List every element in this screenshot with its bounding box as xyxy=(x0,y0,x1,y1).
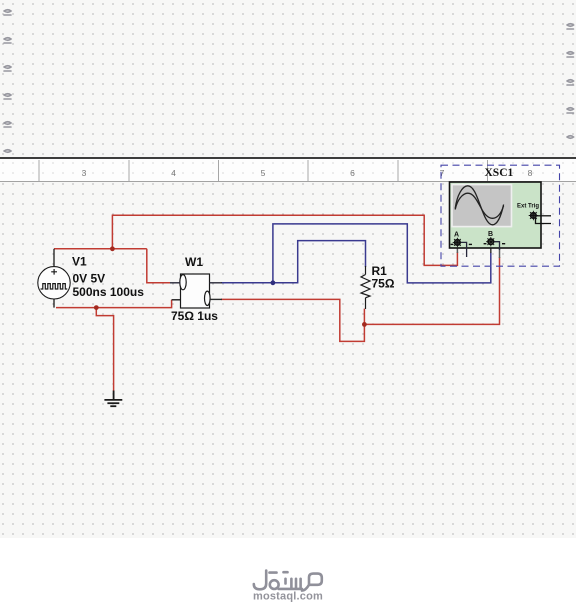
XSC1 screen sine trace 1 xyxy=(455,186,503,225)
wire: navy net2 branch to scope channel B xyxy=(273,224,491,283)
svg-text:0V 5V: 0V 5V xyxy=(73,272,106,286)
XSC1 ext trig terminal xyxy=(529,211,538,220)
XSC1 channel A left minus mark xyxy=(451,243,454,245)
probe stub scope B minus lead xyxy=(499,247,501,258)
XSC1 channel A minus stub xyxy=(461,242,467,257)
ruler tick marks xyxy=(39,160,488,181)
R1 zigzag body xyxy=(361,275,370,298)
wire: red net3 jog to ground stem xyxy=(96,308,113,391)
svg-text:6: 6 xyxy=(350,168,355,178)
svg-text:500ns 100us: 500ns 100us xyxy=(73,285,145,299)
svg-text:75Ω: 75Ω xyxy=(372,277,395,291)
W1 pin right top xyxy=(210,282,223,284)
R1 pin bottom xyxy=(365,298,367,309)
W1 pin left top xyxy=(170,282,181,284)
svg-text:3: 3 xyxy=(82,168,87,178)
V1 plus sign xyxy=(51,269,57,275)
wire: red net1 drop to W1 left pin xyxy=(147,249,170,283)
wire: navy net2 W1.right to R1.top xyxy=(221,241,366,283)
watermark fragment marks left edge xyxy=(4,10,11,153)
svg-text:8: 8 xyxy=(528,168,533,178)
ruler numbers 3 4 5 6 7 8 xyxy=(82,168,533,178)
wire: red net3 V1.bottom run xyxy=(56,300,172,308)
oscilloscope XSC1 dashed selection box xyxy=(441,165,560,266)
resistor R1 xyxy=(361,266,370,309)
svg-text:mostaql.com: mostaql.com xyxy=(253,591,323,603)
wire: red net1 V1.top horizontal run xyxy=(54,248,147,250)
XSC1 channel B left minus mark xyxy=(484,243,487,245)
watermark fragment marks right edge xyxy=(567,24,574,139)
V1 pin top xyxy=(53,249,55,267)
XSC1 channel A terminal xyxy=(453,238,462,247)
R1 pin top xyxy=(365,266,367,275)
watermark mostaql arabic wordmark xyxy=(254,571,322,591)
node: junction dot net3 at V1 bottom xyxy=(94,305,99,310)
XSC1 channel A minus mark xyxy=(469,243,472,245)
oscilloscope XSC1 instrument body xyxy=(450,182,542,248)
XSC1 channel B minus mark xyxy=(502,243,505,245)
svg-text:B: B xyxy=(488,231,493,238)
XSC1 ext trig pin stub lower elbow xyxy=(536,218,552,224)
svg-text:75Ω 1us: 75Ω 1us xyxy=(171,309,218,323)
svg-text:A: A xyxy=(454,232,459,239)
XSC1 screen sine trace 2 xyxy=(455,193,503,218)
wire: red net1 riser to top run xyxy=(112,215,457,265)
svg-text:7: 7 xyxy=(440,168,445,178)
svg-text:V1: V1 xyxy=(72,255,87,269)
V1 pin bottom xyxy=(53,299,55,308)
wire: red net3 W1.bottom to R1.bottom xyxy=(221,299,364,341)
svg-text:4: 4 xyxy=(171,168,176,178)
horizontal ruler bar xyxy=(0,157,576,182)
W1 pin left bottom xyxy=(172,299,181,301)
V1 pulse waveform glyph xyxy=(41,284,68,289)
node: junction dot net1 at V1 top xyxy=(110,246,115,251)
svg-text:W1: W1 xyxy=(185,255,203,269)
ground symbol xyxy=(104,391,122,407)
probe stub scope A lead xyxy=(456,246,458,253)
pulse voltage source V1 xyxy=(38,249,70,308)
probe stub scope B lead xyxy=(490,245,492,253)
svg-text:XSC1: XSC1 xyxy=(485,167,514,179)
XSC1 channel B terminal xyxy=(486,237,495,246)
transmission line W1 xyxy=(180,274,210,308)
node: junction dot net2 at W1 right xyxy=(271,280,276,285)
svg-text:Ext Trig: Ext Trig xyxy=(517,204,539,210)
wire: red net3 run to scope B minus xyxy=(364,257,499,324)
XSC1 ext trig pin stub upper xyxy=(537,215,551,217)
W1 pin right bottom xyxy=(210,298,222,300)
svg-text:5: 5 xyxy=(261,168,266,178)
XSC1 channel B minus stub xyxy=(494,242,499,250)
XSC1 screen bezel xyxy=(452,185,512,227)
node: junction dot net3 at R1 bottom xyxy=(362,322,367,327)
